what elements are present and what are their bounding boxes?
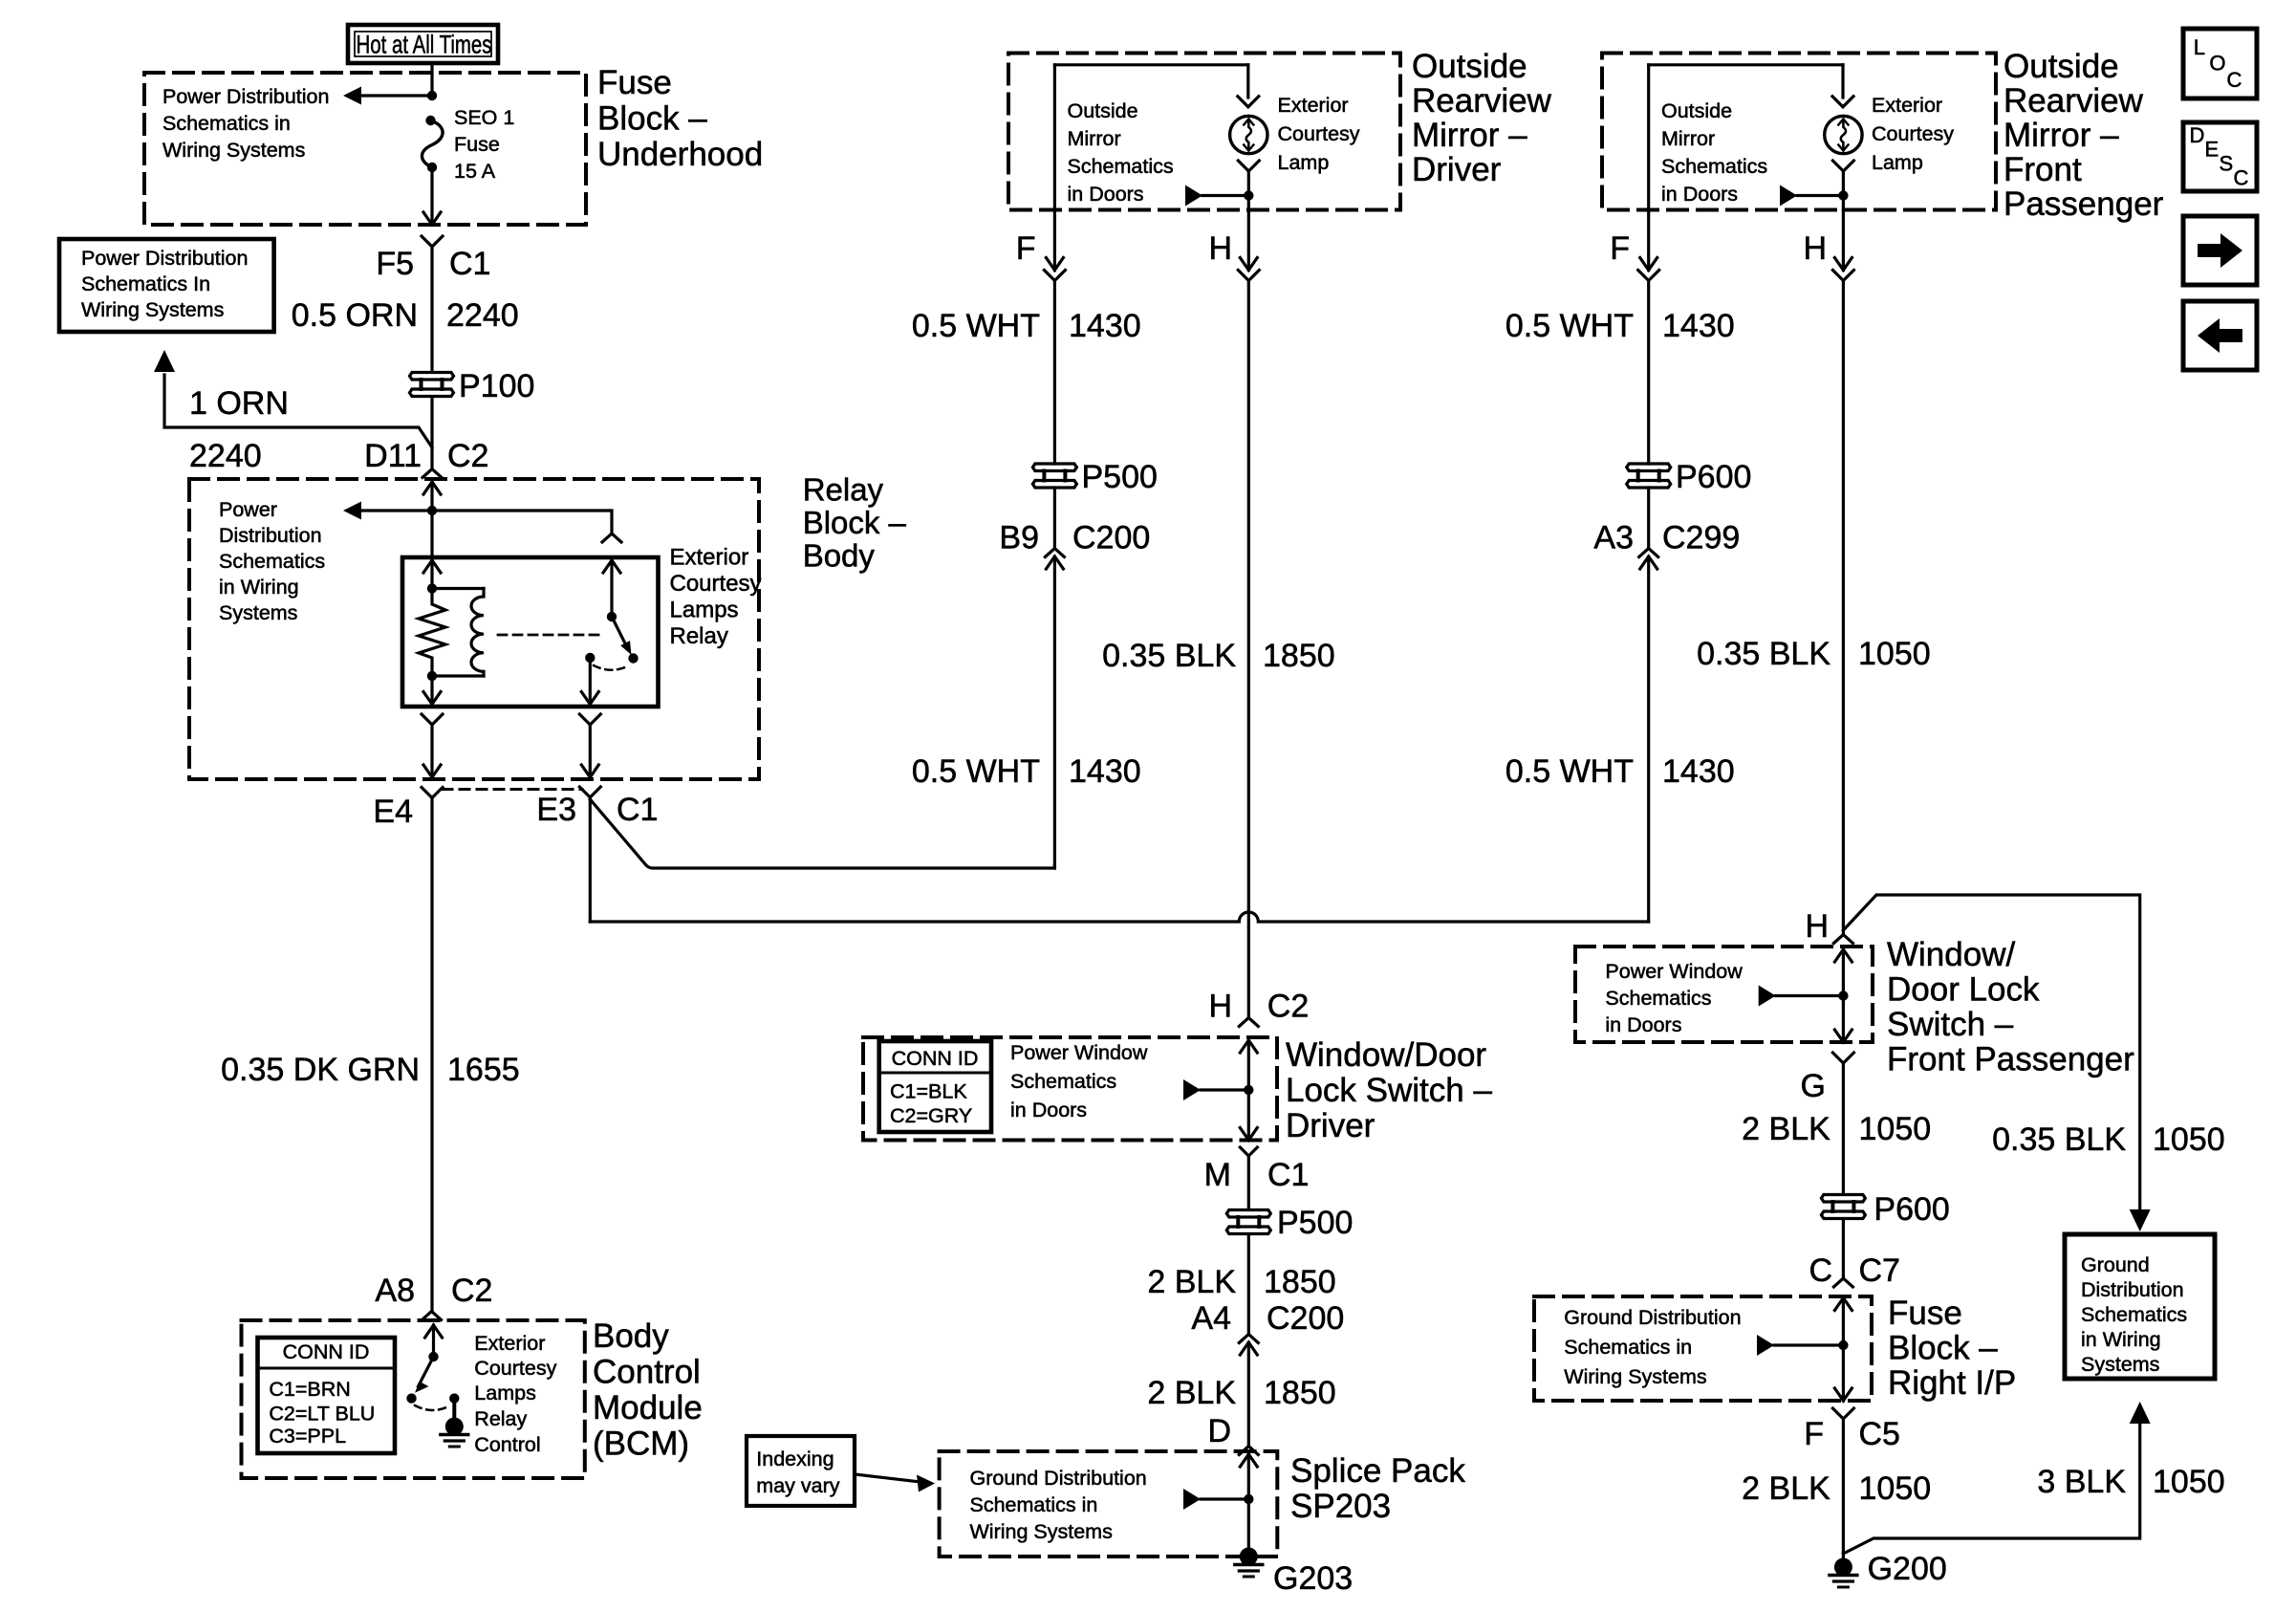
dashed box Outside Rearview Mirror - Driver [1008,54,1400,210]
svg-text:H: H [1803,230,1827,267]
svg-text:Wiring Systems: Wiring Systems [81,298,224,321]
svg-text:2240: 2240 [189,438,262,474]
lamp Exterior Courtesy Lamp (driver) [1230,116,1267,153]
svg-text:Outside: Outside [2004,48,2119,85]
svg-text:C: C [1809,1252,1832,1289]
svg-text:Mirror: Mirror [1068,127,1121,150]
svg-text:Lamps: Lamps [670,598,739,623]
svg-text:C2: C2 [451,1273,492,1309]
svg-text:Systems: Systems [2081,1353,2159,1376]
svg-text:Schematics: Schematics [1068,155,1174,178]
dashed box Outside Rearview Mirror - Front Passenger [1602,54,1996,210]
svg-text:Rearview: Rearview [2004,82,2144,120]
connector chevron relay switch pin [602,533,621,542]
svg-text:C2=LT BLU: C2=LT BLU [269,1403,375,1426]
CONN ID table (BCM) [258,1338,396,1453]
svg-text:F: F [1804,1416,1824,1452]
wire E3 relay box to block edge [579,714,600,725]
svg-text:C200: C200 [1072,520,1150,556]
connector chevron E3 [579,787,600,797]
svg-text:Mirror: Mirror [1661,127,1715,150]
svg-text:Switch –: Switch – [1887,1006,2014,1043]
wire lamp to junction (passenger) [1832,161,1853,171]
svg-text:Lamps: Lamps [474,1382,536,1404]
svg-text:CONN ID: CONN ID [892,1047,979,1070]
svg-text:Block –: Block – [1888,1330,1998,1367]
svg-text:Body: Body [803,538,876,574]
svg-text:(BCM): (BCM) [593,1426,689,1463]
svg-text:Ground Distribution: Ground Distribution [970,1467,1147,1490]
svg-text:C1: C1 [1267,1157,1309,1193]
node relay switch common dot [607,612,617,621]
svg-text:2 BLK: 2 BLK [1147,1264,1236,1300]
ground G200 [1834,1558,1852,1577]
node lamp junction dot (passenger) [1838,190,1848,200]
svg-text:2 BLK: 2 BLK [1147,1375,1236,1411]
svg-text:Front Passenger: Front Passenger [1887,1041,2134,1078]
connector chevron E4 [422,788,443,798]
svg-text:CONN ID: CONN ID [283,1340,370,1363]
connector B9 C200 [1045,549,1064,557]
svg-text:C: C [2234,166,2249,190]
svg-text:Block –: Block – [803,505,907,540]
node relay coil bottom dot [427,671,437,681]
svg-text:SP203: SP203 [1290,1488,1391,1525]
connector chevron D [1239,1447,1258,1455]
svg-text:Relay: Relay [803,472,884,508]
relay coil (inductor) [432,587,484,590]
icon arrow right [2183,216,2257,285]
wire lamp feed (passenger) [1841,65,1844,98]
battery feed box 'Hot at All Times' [348,25,498,63]
svg-text:L: L [2194,35,2205,59]
svg-text:Courtesy: Courtesy [474,1357,556,1380]
svg-text:1850: 1850 [1264,1264,1336,1300]
svg-text:Exterior: Exterior [474,1332,545,1355]
svg-text:1050: 1050 [2153,1464,2225,1500]
svg-text:E: E [2205,138,2220,162]
connector chevron below fuse block [422,236,443,247]
connector chevron F C5 [1832,1408,1853,1419]
svg-text:Hot at All Times: Hot at All Times [357,31,492,59]
relay switch pin entry arrow [603,560,620,573]
svg-text:Wiring Systems: Wiring Systems [1564,1365,1706,1388]
svg-text:Driver: Driver [1286,1107,1375,1144]
svg-text:2 BLK: 2 BLK [1742,1111,1830,1147]
wire lower feed to passenger mirror F (hop over driver H) [590,912,1648,922]
connector A3 C299 [1639,549,1658,557]
grommet P600 (passenger F) [1627,464,1671,471]
svg-text:Schematics In: Schematics In [81,272,210,295]
grommet P500 (driver H) [1226,1210,1270,1218]
svg-text:Splice Pack: Splice Pack [1290,1452,1465,1490]
wire G to P600 [1842,1063,1845,1193]
icon LOC [2183,29,2257,98]
wire P500 to A4 [1247,1235,1250,1334]
wire driver H down to switch [1247,280,1250,1017]
svg-text:F: F [1610,230,1630,267]
svg-text:2 BLK: 2 BLK [1742,1470,1830,1507]
svg-text:Schematics: Schematics [1661,155,1767,178]
node BCM switch contact dot [406,1393,416,1403]
svg-text:Ground Distribution: Ground Distribution [1564,1306,1741,1329]
svg-text:D: D [1207,1413,1231,1449]
wire branch to 3 BLK riser [1843,1425,2139,1554]
relay solid box [402,557,659,707]
node relay coil top dot [427,583,437,593]
relay switch dashed arc [594,665,627,670]
wire mirror top bus (driver) [1054,63,1247,66]
svg-text:Schematics in: Schematics in [162,112,291,135]
svg-text:E3: E3 [536,792,576,828]
svg-text:Body: Body [593,1317,669,1355]
svg-text:0.5 WHT: 0.5 WHT [1505,308,1634,344]
svg-text:Mirror –: Mirror – [1412,117,1527,154]
connector C1 dashed line below relay block [443,788,582,791]
svg-text:Indexing: Indexing [756,1448,834,1470]
svg-text:Module: Module [593,1389,703,1426]
svg-text:Distribution: Distribution [2081,1278,2184,1301]
svg-text:Courtesy: Courtesy [1278,122,1360,145]
svg-text:C2: C2 [1267,989,1309,1025]
svg-text:0.5 WHT: 0.5 WHT [912,308,1040,344]
svg-text:Exterior: Exterior [1872,94,1942,117]
wire 0.5 WHT 1430 upper (driver) [1053,280,1056,464]
svg-text:in Doors: in Doors [1661,183,1738,206]
svg-text:Door Lock: Door Lock [1887,971,2040,1009]
svg-text:B9: B9 [999,520,1039,556]
dashed box Body Control Module [242,1320,585,1478]
svg-text:Schematics in: Schematics in [1564,1336,1692,1359]
connector F (driver) [1053,210,1056,271]
wire P600 to A3 (passenger) [1647,488,1650,548]
fuse SEO 1 15 A [425,116,435,125]
svg-text:C299: C299 [1662,520,1740,556]
svg-text:Power Distribution: Power Distribution [162,85,329,108]
svg-text:0.5 WHT: 0.5 WHT [1505,753,1634,790]
node junction dot relay feed [427,506,437,515]
svg-text:P100: P100 [459,368,534,404]
wire mirror top bus (passenger) [1649,63,1843,66]
svg-text:C1: C1 [617,792,658,828]
arrow Outside Mirror Schematics (driver) [1185,185,1202,207]
svg-text:Block –: Block – [597,100,707,138]
wire F C5 to G200 [1842,1419,1845,1558]
icon DESC [2183,122,2257,191]
node junction dot (fuse block right) [1838,1340,1848,1350]
svg-text:1050: 1050 [1859,1111,1932,1147]
node junction dot (splice pack) [1244,1494,1253,1504]
svg-text:Fuse: Fuse [597,64,672,101]
wire below P100 [430,398,433,468]
arrow Outside Mirror Schematics (passenger) [1780,185,1797,207]
svg-text:Schematics: Schematics [1605,987,1711,1010]
svg-text:G203: G203 [1273,1560,1353,1597]
svg-text:Underhood: Underhood [597,136,763,173]
wire passenger H down to switch [1842,280,1845,932]
svg-text:Control: Control [474,1433,540,1456]
svg-text:C7: C7 [1859,1252,1900,1289]
svg-text:0.35 DK GRN: 0.35 DK GRN [221,1052,420,1088]
dashed box Window/Door Lock Switch - Driver [863,1037,1277,1141]
svg-text:O: O [2209,52,2225,76]
svg-text:15 A: 15 A [454,160,496,183]
svg-text:F: F [1016,230,1036,267]
relay coil-to-switch dashed link [498,634,602,637]
svg-text:Courtesy: Courtesy [1872,122,1954,145]
wire M to P500 [1247,1156,1250,1208]
wire branch to ground distribution (diagonal+horizontal) [1843,895,2139,1209]
svg-text:may vary: may vary [756,1474,839,1497]
svg-text:Fuse: Fuse [454,133,500,156]
node junction dot (passenger switch) [1838,991,1848,1000]
wire through passenger switch box [1834,949,1852,962]
svg-text:1 ORN: 1 ORN [189,385,289,422]
wire 0.5 WHT 1430 lower (driver) [1053,557,1056,869]
svg-text:Courtesy: Courtesy [670,571,762,597]
connector C C7 [1833,1278,1852,1287]
connector chevron A8 C2 [422,1312,442,1320]
svg-text:C1=BRN: C1=BRN [269,1378,350,1401]
svg-text:P600: P600 [1874,1191,1949,1228]
wire E3 down to lower feed [589,799,592,922]
svg-text:E4: E4 [373,794,413,830]
svg-text:Power Distribution: Power Distribution [81,247,248,270]
wire lamp to junction (driver) [1238,161,1259,171]
relay coil output wire E4 [430,676,433,704]
svg-text:A8: A8 [375,1273,415,1309]
svg-text:Right I/P: Right I/P [1888,1364,2016,1402]
svg-text:3 BLK: 3 BLK [2037,1464,2126,1500]
svg-text:0.5 WHT: 0.5 WHT [912,753,1040,790]
wire branch 1 ORN to power distribution box [164,375,432,447]
wire fuse output to fuse block edge [430,167,433,225]
connector A4 C200 [1239,1335,1258,1343]
svg-text:0.35 BLK: 0.35 BLK [1992,1121,2126,1158]
connector chevron G [1832,1053,1853,1063]
svg-text:H: H [1208,230,1232,267]
svg-text:C5: C5 [1859,1416,1900,1452]
BCM switch arm [419,1357,434,1386]
svg-text:F5: F5 [376,246,414,282]
svg-text:0.5 ORN: 0.5 ORN [292,297,418,334]
wire F inside mirror box (driver) [1053,65,1056,210]
svg-text:Outside: Outside [1661,99,1732,122]
svg-text:Wiring Systems: Wiring Systems [970,1520,1113,1543]
svg-text:SEO 1: SEO 1 [454,106,514,129]
svg-text:C1: C1 [449,246,490,282]
svg-text:1050: 1050 [1858,636,1931,672]
svg-text:C200: C200 [1267,1300,1344,1337]
svg-text:M: M [1204,1157,1231,1193]
wire P500 to B9 (driver) [1053,488,1056,548]
relay block entry arrow [423,482,441,494]
wire 0.5 ORN 2240 segment [430,248,433,371]
grommet P100 [410,373,454,381]
arrow Power Window Schematics (driver) [1183,1079,1201,1100]
arrow Ground Distribution Schematics (splice pack) [1183,1489,1201,1510]
svg-text:S: S [2220,152,2234,176]
node BCM ground contact dot [449,1393,459,1403]
grommet P600 (passenger H) [1821,1195,1865,1203]
svg-text:in Doors: in Doors [1605,1013,1681,1036]
node relay switch output contact dot [585,653,595,663]
svg-text:Schematics: Schematics [219,550,325,573]
node junction dot at fuse feed [427,91,437,100]
svg-text:Lock Switch –: Lock Switch – [1286,1072,1492,1109]
svg-text:in Wiring: in Wiring [2081,1328,2161,1351]
solid box Ground Distribution Schematics in Wiring Systems (right) [2065,1234,2215,1379]
wire P600 to C C7 [1842,1220,1845,1278]
svg-text:Lamp: Lamp [1278,151,1330,174]
connector F (passenger) [1647,210,1650,271]
connector chevron H (switch passenger) [1833,935,1852,944]
svg-text:1850: 1850 [1264,1375,1336,1411]
svg-text:1430: 1430 [1662,753,1735,790]
svg-text:Power Window: Power Window [1605,960,1743,983]
svg-text:Wiring Systems: Wiring Systems [162,139,305,162]
connector chevron H C2 [1239,1018,1258,1027]
svg-text:Relay: Relay [474,1407,527,1430]
svg-text:Window/: Window/ [1887,936,2015,973]
svg-text:1430: 1430 [1662,308,1735,344]
svg-text:Systems: Systems [219,601,297,624]
wire E3 to driver mirror F (via diagonal) [590,799,1054,868]
svg-text:Ground: Ground [2081,1253,2150,1276]
svg-text:Mirror –: Mirror – [2004,117,2119,154]
svg-text:Distribution: Distribution [219,524,322,547]
svg-text:1050: 1050 [1859,1470,1932,1507]
svg-text:Schematics: Schematics [1010,1070,1116,1093]
wire A4 to splice pack [1247,1343,1250,1447]
svg-text:P500: P500 [1277,1205,1353,1241]
BCM internal ground stem [452,1399,456,1422]
solid box Power Distribution Schematics in Wiring Systems (left) [59,239,274,332]
svg-text:Relay: Relay [670,623,728,649]
wire arrow to Power Distribution (left) [361,94,432,97]
wire 0.35 DK GRN 1655 [430,798,433,1311]
node junction dot (driver switch) [1244,1085,1253,1095]
relay switch output wire E3 [589,658,592,704]
svg-text:Window/Door: Window/Door [1286,1036,1486,1074]
svg-text:2240: 2240 [446,297,519,334]
relay switch arm [612,617,628,649]
svg-text:Lamp: Lamp [1872,151,1923,174]
svg-text:P500: P500 [1082,459,1158,495]
connector chevron D11 C2 [422,469,442,478]
svg-text:C2: C2 [447,438,488,474]
wire from Hot at All Times into fuse block [430,63,433,96]
svg-text:G: G [1801,1068,1826,1104]
svg-text:C3=PPL: C3=PPL [269,1425,346,1448]
svg-text:Schematics: Schematics [2081,1303,2187,1326]
svg-text:Driver: Driver [1412,151,1502,188]
wire through splice pack [1240,1454,1257,1467]
arrow Power Window Schematics (passenger) [1759,986,1776,1007]
resistor in relay [419,589,445,677]
node BCM driver dot [428,1352,438,1361]
wire through fuse block right [1834,1298,1852,1311]
svg-text:Outside: Outside [1068,99,1138,122]
svg-text:in Doors: in Doors [1068,183,1144,206]
svg-text:C: C [2227,68,2242,92]
connector chevron M C1 [1240,1147,1257,1156]
svg-text:P600: P600 [1676,459,1751,495]
wire F inside mirror box (passenger) [1647,65,1650,210]
wire 0.5 WHT 1430 lower (passenger) [1647,557,1650,923]
connector H (driver) [1247,210,1250,271]
svg-text:1430: 1430 [1069,753,1141,790]
svg-text:in Doors: in Doors [1010,1099,1087,1121]
svg-text:Power Window: Power Window [1010,1041,1148,1064]
node relay switch moving contact dot [628,653,638,663]
svg-text:C2=GRY: C2=GRY [890,1104,972,1127]
svg-text:D11: D11 [364,438,422,474]
svg-text:A4: A4 [1191,1300,1231,1337]
svg-text:Exterior: Exterior [1278,94,1349,117]
svg-text:H: H [1208,989,1232,1025]
svg-text:1850: 1850 [1263,638,1335,674]
wire arrow to Power Distribution (relay block) [361,509,432,512]
svg-text:D: D [2190,123,2205,147]
wire E4 relay box to block edge [422,714,443,725]
svg-text:Front: Front [2004,151,2082,188]
connector H (passenger) [1842,210,1845,271]
wire lamp feed (driver) [1246,65,1249,98]
dashed box Fuse Block - Right I/P [1534,1296,1872,1401]
grommet P500 (driver F) [1032,464,1076,471]
svg-text:Fuse: Fuse [1888,1295,1962,1332]
svg-text:0.35 BLK: 0.35 BLK [1102,638,1236,674]
BCM driver entry arrow [425,1325,443,1338]
CONN ID table (driver switch) [879,1041,991,1132]
svg-text:Power: Power [219,498,277,521]
wire branch to relay switch pin [432,511,612,533]
svg-text:0.35 BLK: 0.35 BLK [1697,636,1830,672]
svg-text:1430: 1430 [1069,308,1141,344]
svg-text:Passenger: Passenger [2004,185,2164,223]
dashed box Relay Block - Body [189,479,759,779]
dashed box Fuse Block - Underhood [144,73,586,225]
relay coil pin entry arrow [430,511,433,557]
svg-text:Outside: Outside [1412,48,1527,85]
arrow Ground Distribution Schematics (fuse block right) [1757,1335,1774,1356]
node lamp junction dot (driver) [1244,190,1253,200]
svg-text:in Wiring: in Wiring [219,576,299,599]
arrow Indexing may vary to splice pack [855,1474,924,1483]
svg-text:Control: Control [593,1354,701,1391]
svg-text:Schematics in: Schematics in [970,1493,1098,1516]
svg-text:G200: G200 [1868,1551,1947,1587]
callout box Indexing may vary [747,1436,855,1506]
wire 0.5 WHT 1430 upper (passenger) [1647,280,1650,464]
lamp Exterior Courtesy Lamp (passenger) [1825,116,1862,153]
svg-text:Rearview: Rearview [1412,82,1552,120]
svg-text:A3: A3 [1593,520,1634,556]
svg-text:1050: 1050 [2153,1121,2225,1158]
svg-text:Exterior: Exterior [670,545,749,571]
ground (BCM internal) [445,1418,464,1436]
dashed box Splice Pack SP203 [940,1451,1278,1557]
icon arrow left [2183,301,2257,370]
svg-text:1655: 1655 [447,1052,520,1088]
svg-text:C1=BLK: C1=BLK [890,1080,967,1103]
BCM switch dashed arc [415,1405,450,1410]
dashed box Window/Door Lock Switch - Front Passenger [1575,947,1873,1042]
wire through driver switch box [1240,1040,1257,1053]
ground G203 [1240,1548,1258,1566]
svg-text:H: H [1805,908,1829,945]
